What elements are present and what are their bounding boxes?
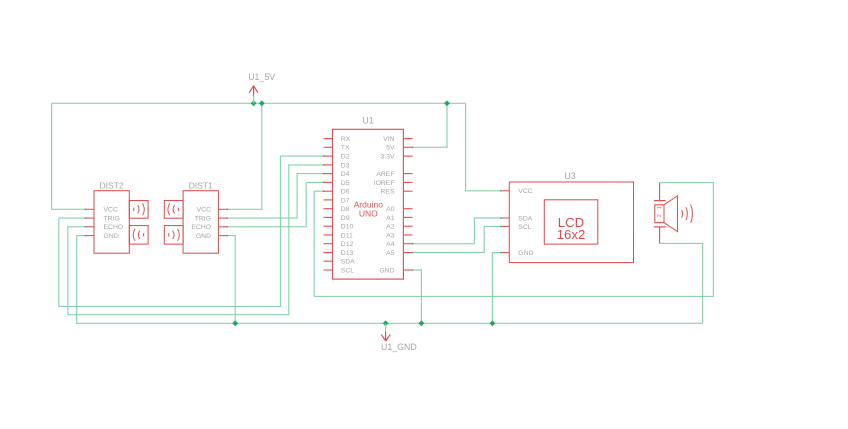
svg-text:TRIG: TRIG bbox=[195, 216, 211, 223]
pin TRIG bbox=[85, 217, 94, 219]
wire 5V net to U3 VCC bbox=[466, 103, 501, 191]
transducer box top bbox=[129, 201, 148, 219]
svg-text:SCL: SCL bbox=[518, 224, 531, 231]
speaker top bar bbox=[654, 200, 666, 202]
svg-text:D12: D12 bbox=[341, 241, 354, 248]
svg-text:D10: D10 bbox=[341, 224, 354, 231]
svg-text:1: 1 bbox=[657, 206, 663, 209]
junction diamonds bbox=[232, 100, 495, 326]
pin ECHO bbox=[85, 226, 94, 228]
wire 5V net to DIST2 VCC bbox=[52, 103, 86, 209]
node 5V net junction DIST1 VCC bbox=[259, 100, 265, 106]
pin RX bbox=[324, 138, 333, 140]
wire DIST2 ECHO to U1 D3 bbox=[68, 165, 324, 315]
pin D6 bbox=[324, 190, 333, 192]
wire GND net from DIST2 GND bbox=[77, 236, 703, 324]
pin D2 bbox=[324, 155, 333, 157]
pin 3.3V bbox=[403, 155, 412, 157]
component U3 LCD 16x2 bbox=[501, 171, 634, 263]
svg-text:A5: A5 bbox=[386, 250, 395, 257]
node 5V net junction U1 5V bbox=[444, 100, 450, 106]
svg-text:3.3V: 3.3V bbox=[381, 154, 395, 161]
svg-text:TRIG: TRIG bbox=[104, 216, 120, 223]
svg-text:U1: U1 bbox=[362, 116, 373, 126]
wire DIST1 TRIG to U1 D4 bbox=[227, 174, 323, 219]
svg-text:ECHO: ECHO bbox=[104, 224, 124, 231]
pin A3 bbox=[403, 234, 412, 236]
pin TRIG bbox=[218, 217, 227, 219]
svg-text:TX: TX bbox=[341, 145, 350, 152]
svg-text:U1_GND: U1_GND bbox=[381, 342, 417, 352]
pin A4 bbox=[403, 243, 412, 245]
svg-text:A0: A0 bbox=[386, 206, 395, 213]
pin VCC bbox=[218, 208, 227, 210]
pin GND bbox=[85, 235, 94, 237]
power flag U1_GND bbox=[381, 323, 417, 352]
svg-text:VCC: VCC bbox=[197, 207, 211, 214]
svg-text:D2: D2 bbox=[341, 154, 350, 161]
svg-text:IOREF: IOREF bbox=[374, 180, 395, 187]
svg-text:RES: RES bbox=[381, 189, 395, 196]
svg-text:D8: D8 bbox=[341, 206, 350, 213]
node 5V net junction at power flag bbox=[251, 100, 257, 106]
svg-text:D9: D9 bbox=[341, 215, 350, 222]
svg-text:D11: D11 bbox=[341, 232, 353, 239]
wire 5V net horizontal bbox=[52, 102, 466, 104]
wire 5V net to DIST1 VCC bbox=[227, 103, 262, 209]
svg-text:D4: D4 bbox=[341, 171, 350, 178]
transducer box bottom bbox=[129, 226, 148, 245]
pin A2 bbox=[403, 225, 412, 227]
svg-text:ECHO: ECHO bbox=[191, 224, 211, 231]
pin IOREF bbox=[403, 181, 412, 183]
node GND net junction power flag bbox=[383, 320, 389, 326]
svg-text:DIST1: DIST1 bbox=[189, 180, 213, 190]
svg-text:U1_5V: U1_5V bbox=[248, 72, 275, 82]
wire stub to flag bbox=[385, 323, 387, 332]
speaker cone bbox=[664, 196, 678, 232]
wire DIST1 ECHO to U1 D5 bbox=[227, 182, 323, 226]
pin D9 bbox=[324, 216, 333, 218]
node GND net junction DIST1 GND bbox=[232, 320, 238, 326]
node GND net junction U1 GND bbox=[419, 320, 425, 326]
pin D11 bbox=[324, 234, 333, 236]
node GND net junction U3 GND bbox=[490, 320, 496, 326]
pin SCL bbox=[324, 269, 333, 271]
svg-text:A4: A4 bbox=[386, 241, 395, 248]
svg-text:A3: A3 bbox=[386, 232, 395, 239]
svg-text:GND: GND bbox=[196, 233, 211, 240]
svg-text:AREF: AREF bbox=[376, 171, 394, 178]
pin SDA bbox=[501, 217, 510, 219]
svg-text:D13: D13 bbox=[341, 250, 354, 257]
wire speaker pin 2 to GND net bbox=[660, 243, 703, 323]
pin VCC bbox=[501, 190, 510, 192]
pin D10 bbox=[324, 225, 333, 227]
wire U1 D6 to speaker pin 1 bbox=[314, 183, 713, 297]
wire DIST2 TRIG to U1 D2 bbox=[59, 156, 324, 306]
svg-text:SCL: SCL bbox=[341, 267, 354, 274]
svg-text:5V: 5V bbox=[386, 145, 395, 152]
pin ECHO bbox=[218, 226, 227, 228]
component LS1 speaker bbox=[654, 183, 693, 244]
svg-text:DIST2: DIST2 bbox=[100, 180, 124, 190]
sound waves bbox=[682, 204, 693, 223]
wire speaker top red lead bbox=[659, 183, 661, 201]
power flag U1_5V bbox=[248, 72, 275, 103]
svg-text:D3: D3 bbox=[341, 162, 350, 169]
svg-text:D7: D7 bbox=[341, 197, 350, 204]
wire stub to flag bbox=[253, 95, 255, 103]
component DIST1 ultrasonic sensor bbox=[164, 180, 227, 253]
svg-text:GND: GND bbox=[518, 250, 533, 257]
pin D5 bbox=[324, 181, 333, 183]
svg-text:RX: RX bbox=[341, 136, 351, 143]
pin A5 bbox=[403, 252, 412, 254]
wire U1 GND to GND net bbox=[413, 270, 422, 323]
pin RES bbox=[403, 190, 412, 192]
pin GND bbox=[403, 269, 412, 271]
pin SCL bbox=[501, 225, 510, 227]
transducer box top bbox=[164, 201, 183, 219]
wire DIST1 GND to GND net bbox=[227, 236, 235, 324]
svg-text:2: 2 bbox=[657, 214, 663, 217]
svg-text:D5: D5 bbox=[341, 180, 350, 187]
component U1 Arduino UNO bbox=[324, 116, 413, 280]
svg-text:GND: GND bbox=[379, 267, 394, 274]
pin D4 bbox=[324, 173, 333, 175]
pin TX bbox=[324, 146, 333, 148]
pin D12 bbox=[324, 243, 333, 245]
svg-text:16x2: 16x2 bbox=[557, 227, 586, 242]
svg-text:VCC: VCC bbox=[104, 207, 118, 214]
svg-text:SDA: SDA bbox=[518, 215, 532, 222]
pin VIN bbox=[403, 138, 412, 140]
pin SDA bbox=[324, 260, 333, 262]
pin AREF bbox=[403, 173, 412, 175]
pin 5V bbox=[403, 146, 412, 148]
svg-text:SDA: SDA bbox=[341, 259, 355, 266]
pin D13 bbox=[324, 252, 333, 254]
pin GND bbox=[218, 235, 227, 237]
svg-text:A2: A2 bbox=[386, 224, 395, 231]
pin D7 bbox=[324, 199, 333, 201]
pin A1 bbox=[403, 216, 412, 218]
svg-text:D6: D6 bbox=[341, 189, 350, 196]
speaker body box bbox=[655, 205, 664, 223]
wire speaker bottom red lead bbox=[659, 227, 661, 243]
svg-text:UNO: UNO bbox=[359, 209, 378, 219]
svg-text:A1: A1 bbox=[386, 215, 395, 222]
svg-text:VIN: VIN bbox=[383, 136, 394, 143]
transducer box bottom bbox=[164, 226, 183, 245]
svg-text:VCC: VCC bbox=[518, 188, 532, 195]
wire U1 A5 to U3 SCL bbox=[413, 226, 501, 252]
wire U3 GND to GND net bbox=[492, 253, 500, 324]
component DIST2 ultrasonic sensor bbox=[85, 180, 148, 253]
svg-text:U3: U3 bbox=[564, 171, 575, 181]
wire 5V net to U1 5V pin bbox=[413, 103, 447, 147]
pin VCC bbox=[85, 208, 94, 210]
pin A0 bbox=[403, 208, 412, 210]
pin D3 bbox=[324, 164, 333, 166]
pin D8 bbox=[324, 208, 333, 210]
pin connection dots bbox=[84, 146, 501, 270]
speaker bottom bar bbox=[654, 226, 666, 228]
wire U1 A4 to U3 SDA bbox=[413, 218, 501, 244]
svg-text:GND: GND bbox=[104, 233, 119, 240]
pin GND bbox=[501, 252, 510, 254]
